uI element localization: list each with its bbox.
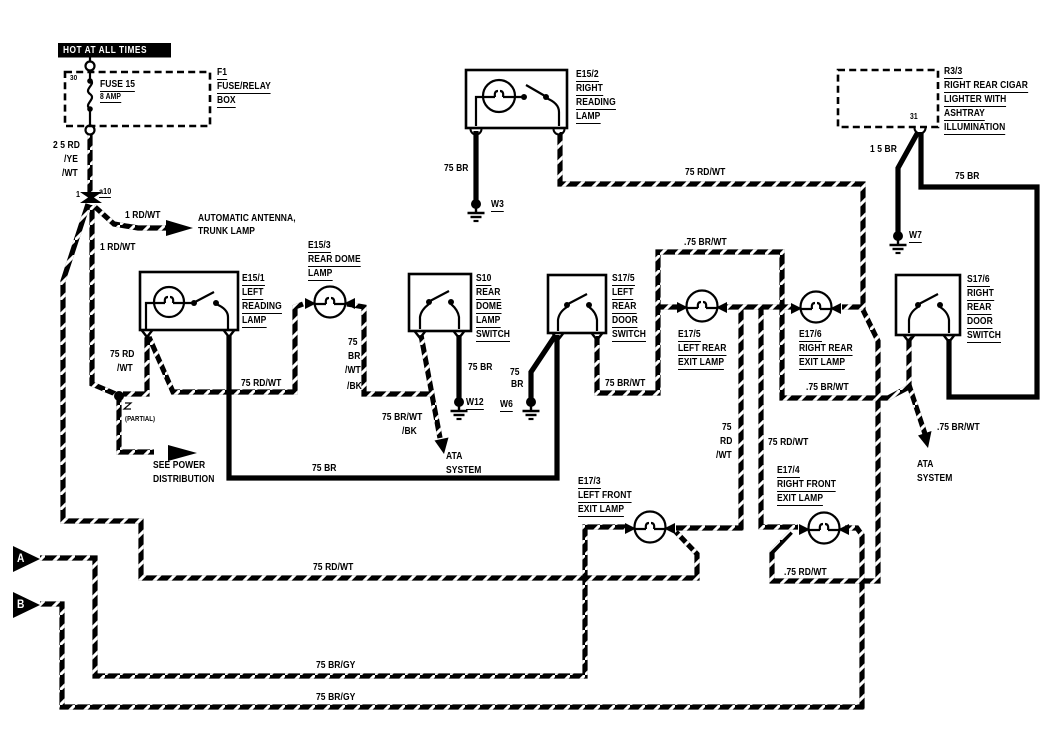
connector A triangle [13,546,40,572]
label W3 [491,200,504,212]
label E15/3 [308,241,331,253]
lamp bulb E17/5 left rear exit lamp [677,291,727,322]
label distribution [153,475,214,485]
label 75 RD/WT col b [720,437,732,447]
label E15/1 [242,274,265,286]
label 1 RD/WT upper [125,211,161,221]
label 1.5 BR [870,145,897,155]
lamp bulb E17/3 left front exit lamp [625,512,675,543]
label 75 W6 a [510,368,520,378]
label connector A [17,552,24,564]
label right front E17/4 [777,480,836,492]
wire 75 RD/WT main feed run [63,204,697,578]
wire E17/4 right + 75 BR/GY lower to connector B [40,528,862,707]
label rear [476,288,500,300]
label switch S17/5 [612,330,646,342]
label illumination [944,123,1005,135]
label right S17/6 [967,289,994,301]
wire E15/1 left terminal to splice [123,335,147,394]
label E17/3 [578,477,601,489]
switch contacts S17/6 [915,294,943,308]
label 75 BR W3 [444,164,469,174]
label /WT [62,169,78,179]
label 75 BR right [955,172,980,182]
label rear S17/6 [967,303,991,315]
label pin 31 [910,113,918,121]
switch contacts E15/2 [521,85,549,100]
splice Z junction dot (partial) [114,391,131,409]
lamp bulb E17/4 right front exit lamp [799,513,849,544]
wire 75 RD/WT drop to E17/4 [761,307,798,527]
label box [217,96,236,108]
wire 75 RD/WT top run from E15/2 [560,132,863,307]
arrow to automatic antenna [166,220,193,236]
wire 1.5 BR to ground W7 [898,132,918,232]
label right rear E17/6 [799,344,853,356]
label dome [476,302,502,314]
label 75 BR/WT [605,379,645,389]
label E17/5 [678,330,701,342]
label 75 RD/WT top [685,168,725,178]
label 75 BR/GY lower [316,693,355,703]
label pin 1 [76,190,80,199]
wire 75 BR/WT/BK to ATA arrow [421,335,440,438]
label ATA right b [917,474,952,484]
label S17/5 [612,274,635,286]
label ATA left a [446,452,462,462]
label right E15/2 [576,84,603,96]
wire 1 RD/WT connector to splice [92,205,118,395]
internal leads S17/5 [558,307,597,331]
label left [242,288,264,300]
wire .75 BR/WT to ATA arrow right [909,385,925,434]
internal leads S17/6 [909,307,949,333]
label door S17/5 [612,316,638,328]
label lamp E15/2 [576,112,600,124]
lamp bulb E17/6 right rear exit lamp [791,292,841,323]
terminal S17/5 left [553,333,564,340]
wire 75 RD/WT E15/1 to E15/3 [149,304,303,392]
label fuse/relay [217,82,271,94]
label rear S17/5 [612,302,636,314]
label lighter with [944,95,1006,107]
label 75 col c [345,366,361,376]
right reading lamp E15/2 box [466,70,567,128]
internal leads S10 [420,304,459,329]
label left S17/5 [612,288,634,300]
label rear dome [308,255,361,267]
ground W6 [523,397,540,419]
terminal S10 left [415,331,426,338]
label 75 col d [347,382,362,392]
wire .75 RD/WT under E17/4 with riser [772,310,878,581]
terminal S17/6 left [904,335,915,342]
label exit lamp E17/5 [678,358,724,370]
label partial [125,416,155,423]
label switch S17/6 [967,331,1001,343]
terminal S17/6 right [944,335,955,342]
wire 1 RD/WT to antenna arrow [94,206,166,228]
wire splice to power-distribution arrow [119,400,154,452]
switch contacts E15/1 [191,292,219,306]
label F1 [217,68,227,80]
internal leads E15/1 [146,303,228,329]
reading lamp E15/1 box [140,272,238,330]
fuse F1 15 symbol [87,72,93,126]
label 75 BR/WT/BK b [402,427,417,437]
rear dome lamp switch S10 box [409,274,471,331]
label S17/6 [967,275,990,287]
label exit lamp E17/3 [578,505,624,517]
label lamp E15/3 [308,269,332,281]
ground W3 [468,199,485,221]
label switch S10 [476,330,510,342]
label .75 BR/WT top [684,238,727,248]
internal leads E15/2 [476,97,559,126]
label 75 RD left a [110,350,135,360]
terminal 31 of R3/3 [915,128,926,134]
switch contacts S10 [426,291,454,305]
wire 2.5 RD/YE/WT from fuse to connector [87,134,92,192]
label W12 [466,398,484,410]
terminal S17/5 right [592,333,603,340]
lamp bulb E15/2 [483,80,515,112]
hot-at-all-times header [58,43,171,58]
label E17/6 [799,330,822,342]
connector B triangle [13,592,40,618]
wire 75 BR right loop to S17/6 [921,132,1037,397]
label 75 col b [348,352,360,362]
lamp bulb E15/1 [154,287,184,317]
left rear door switch S17/5 box [548,275,606,333]
label 75 W6 b [511,380,523,390]
arrow ATA system left [435,438,449,455]
label reading E15/2 [576,98,616,110]
label 75 BR W12 [468,363,493,373]
label /YE [64,155,78,165]
label fuse 15 [100,80,135,92]
label trunk lamp [198,227,255,237]
connector 1/a10 bowtie [80,192,102,203]
label E15/2 [576,70,599,82]
wire 75 BR bus E15/1 to S17/5 [229,335,557,478]
label connector a10 [99,187,111,198]
label 75 RD/WT long [313,563,353,573]
label 75 RD/WT col c [716,451,732,461]
terminal circle below fuse box [86,126,95,135]
label see power [153,461,205,471]
label connector B [17,598,24,610]
arrow to power distribution [168,445,197,461]
label 75 RD left b [117,364,133,374]
label exit lamp E17/6 [799,358,845,370]
ground W7 [890,231,907,253]
wire E15/3 to S10 switch [347,304,429,394]
label 75 RD/WT drop [768,438,808,448]
label right rear cigar [944,81,1028,93]
label 8 amp [100,93,121,103]
label .75 BR/WT ata [937,423,980,433]
stub to E17/5 left terminal [658,304,678,309]
terminal E15/2 left [471,129,482,135]
arrow ATA system right [918,431,932,448]
label 75 RD/WT mid [241,379,281,389]
label ATA right a [917,460,933,470]
label W6 [500,400,513,412]
label lamp [242,316,266,328]
wire 75 BR to ground W6 [531,336,555,398]
wire between E17/5 and E17/6 lamps [724,304,793,309]
switch contacts S17/5 [564,294,592,308]
label ashtray [944,109,985,121]
label exit lamp E17/4 [777,494,823,506]
label lamp S10 [476,316,500,328]
lamp bulb E15/3 [305,287,355,318]
wire E17/3 left + 75 BR/GY upper to connector A [40,527,626,676]
label .75 RD/WT [784,568,827,578]
wire 75 BR to ground W3 [473,131,478,201]
label 2.5 RD [53,141,80,151]
label 1 RD/WT lower [100,243,136,253]
label 75 RD/WT col a [722,423,732,433]
label 75 col a [348,338,358,348]
terminal S10 right [454,331,465,338]
label E17/4 [777,466,800,478]
terminal circle above fuse box [86,62,95,71]
label 75 BR/GY upper [316,661,355,671]
label ATA left b [446,466,481,476]
label W7 [909,231,922,243]
label pin 30 [70,74,77,82]
label S10 [476,274,491,286]
label automatic antenna [198,214,296,224]
terminal E15/1 right [224,330,235,337]
label door S17/6 [967,317,993,329]
label left front E17/3 [578,491,632,503]
wire 75 BR/WT net S17/5 to S17/6 [597,252,909,398]
label R3/3 [944,67,962,79]
terminal E15/2 right [554,129,565,135]
label 75 BR/WT/BK a [382,413,422,423]
label hot at all times [63,46,147,56]
fuse/relay box F1 (dashed) [65,72,210,126]
label .75 BR/WT low [806,383,849,393]
label 75 BR bus [312,464,337,474]
ground W12 [451,397,468,419]
terminal E15/1 left [142,330,153,337]
label reading [242,302,282,314]
wire 75 BR to ground W12 [456,335,461,398]
wire 75 RD/WT drop to E17/3 [676,307,741,528]
cigar lighter R3/3 box (dashed) [838,70,938,127]
label left rear E17/5 [678,344,726,356]
right rear door switch S17/6 box [896,275,960,335]
